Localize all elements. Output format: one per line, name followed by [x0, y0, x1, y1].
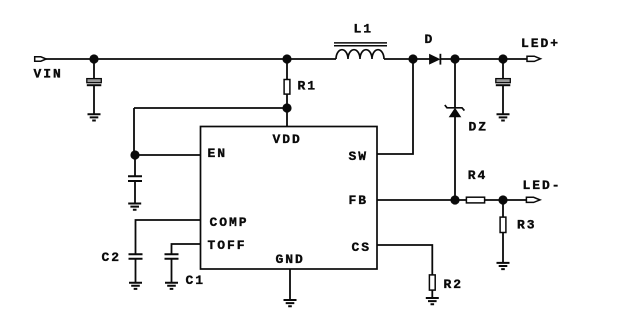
svg-text:GND: GND: [276, 252, 305, 267]
svg-text:DZ: DZ: [469, 120, 489, 135]
svg-text:LED-: LED-: [523, 178, 562, 193]
svg-text:R1: R1: [298, 79, 318, 94]
svg-text:C2: C2: [102, 250, 122, 265]
svg-text:L1: L1: [354, 21, 374, 36]
svg-text:TOFF: TOFF: [208, 238, 247, 253]
svg-text:CS: CS: [352, 240, 372, 255]
svg-text:COMP: COMP: [210, 215, 249, 230]
svg-text:C1: C1: [186, 273, 206, 288]
svg-text:SW: SW: [349, 149, 369, 164]
svg-text:EN: EN: [208, 146, 228, 161]
svg-text:R4: R4: [468, 168, 488, 183]
svg-text:LED+: LED+: [521, 36, 560, 51]
svg-text:D: D: [425, 32, 435, 47]
svg-text:FB: FB: [349, 193, 369, 208]
svg-text:VDD: VDD: [273, 132, 302, 147]
svg-text:R3: R3: [517, 217, 537, 232]
svg-text:R2: R2: [444, 277, 464, 292]
svg-text:VIN: VIN: [34, 67, 63, 82]
